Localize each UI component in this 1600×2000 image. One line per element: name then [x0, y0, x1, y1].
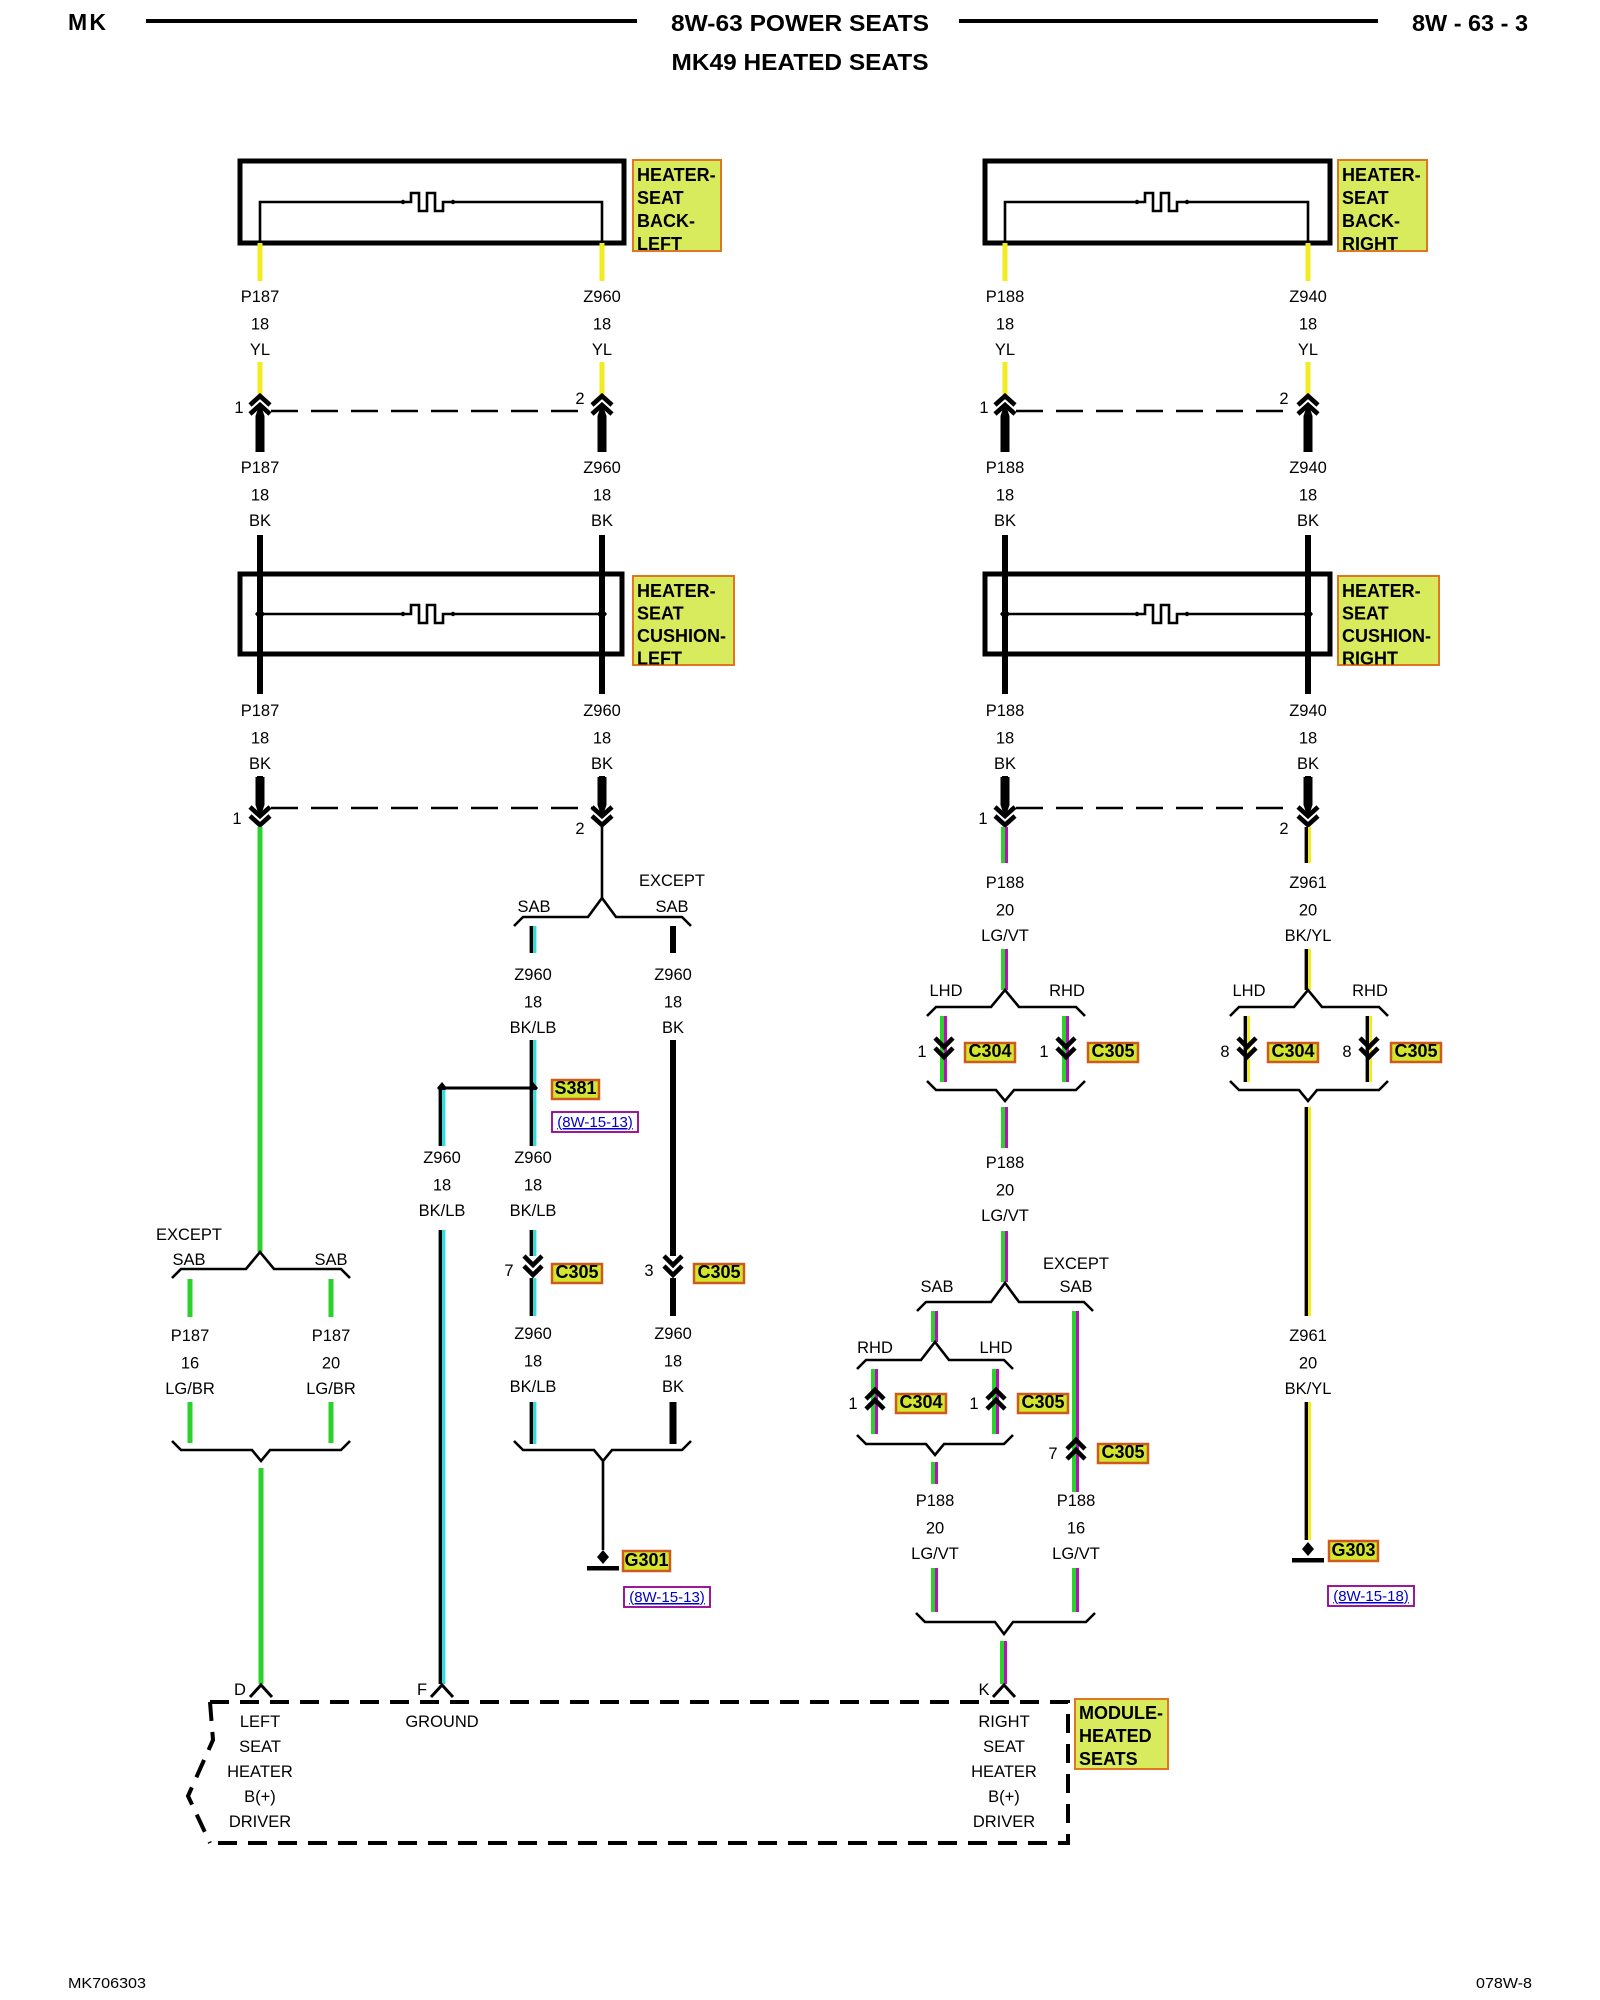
- label box HEATER-SEAT CUSHION-LEFT: [633, 576, 734, 669]
- svg-text:8: 8: [1220, 1043, 1229, 1061]
- wire Z961 BK/YL long to label: [1306, 1107, 1309, 1316]
- ground label G303: [1329, 1540, 1378, 1561]
- wire Z940 18 BK through cushion: [1305, 574, 1311, 694]
- dashed connector mating line back-right: [1016, 410, 1296, 413]
- wire P188 20 LG/VT upper segment: [1003, 827, 1007, 863]
- svg-text:SEAT: SEAT: [1342, 604, 1389, 624]
- svg-text:18: 18: [251, 316, 269, 334]
- wire Z960 BK into ground merge: [670, 1402, 677, 1444]
- heater element resistor back-right: [1005, 193, 1308, 243]
- svg-text:BK: BK: [994, 755, 1016, 773]
- value label Z961 20 BK/YL: [1285, 874, 1332, 945]
- svg-text:SAB: SAB: [172, 1251, 205, 1269]
- connector label C305 left: [552, 1262, 602, 1283]
- connector C305 pin 7 up chevrons: [1067, 1440, 1085, 1459]
- svg-text:SEAT: SEAT: [637, 188, 684, 208]
- svg-text:G303: G303: [1331, 1540, 1375, 1560]
- pin number 1 back-right connector: [979, 399, 988, 417]
- pin number 7 C305 up: [1048, 1445, 1057, 1463]
- svg-text:BK: BK: [662, 1378, 684, 1396]
- svg-text:SEAT: SEAT: [637, 604, 684, 624]
- svg-text:BK/LB: BK/LB: [419, 1202, 466, 1220]
- svg-text:C305: C305: [1101, 1442, 1144, 1462]
- value label Z940 18 YL: [1289, 288, 1327, 359]
- svg-text:C305: C305: [697, 1262, 740, 1282]
- merge bracket P187 branches: [172, 1441, 350, 1461]
- wire Z960 BK long segment to connector C305 pin 3: [670, 1040, 676, 1256]
- footer sheet number 078W-8: [1476, 1975, 1532, 1992]
- svg-text:Z940: Z940: [1289, 702, 1327, 720]
- wire P187 18 BK to connector: [257, 776, 263, 806]
- svg-text:SEAT: SEAT: [1342, 188, 1389, 208]
- heater seat back-right component box: [985, 161, 1330, 243]
- svg-text:2: 2: [575, 820, 584, 838]
- svg-text:18: 18: [593, 730, 611, 748]
- pin number 8 C304: [1220, 1043, 1229, 1061]
- header page number 8W - 63 - 3: [1412, 10, 1528, 36]
- svg-text:BK/LB: BK/LB: [510, 1378, 557, 1396]
- svg-text:18: 18: [593, 316, 611, 334]
- label box HEATER-SEAT BACK-LEFT: [633, 160, 721, 254]
- value label P188 18 BK: [986, 459, 1025, 530]
- wire Z960 BK below C305: [670, 1278, 676, 1316]
- value label P188 18 BK lower: [986, 702, 1025, 773]
- wire P188 18 BK through cushion: [1002, 574, 1008, 694]
- connector pin arrow up P188: [995, 396, 1015, 452]
- connector pin arrow down P187: [250, 777, 270, 825]
- svg-text:8W - 63 - 3: 8W - 63 - 3: [1412, 10, 1528, 36]
- wire Z960 BK/LB splice left branch: [440, 1090, 443, 1146]
- svg-text:1: 1: [917, 1043, 926, 1061]
- svg-text:RIGHT: RIGHT: [978, 1713, 1029, 1731]
- svg-text:20: 20: [996, 1182, 1014, 1200]
- svg-text:YL: YL: [995, 341, 1015, 359]
- module pin K chevron: [993, 1685, 1015, 1697]
- options split bracket SAB / EXCEPT SAB left: [514, 898, 691, 926]
- wire P188 18 YL lower segment: [1003, 362, 1008, 396]
- wire Z960 thin segment to options split: [601, 827, 604, 898]
- wire Z961 BK/YL RHD branch through C305 pin 8: [1367, 1016, 1370, 1082]
- connector label C305: [1088, 1041, 1138, 1062]
- wire Z960 BK/LB to splice S381: [531, 1040, 534, 1086]
- pin number 3: [644, 1262, 653, 1280]
- svg-text:BK: BK: [591, 755, 613, 773]
- wire Z960 BK/LB long ground-feed to module pin F: [440, 1230, 443, 1684]
- heater element resistor back-left: [260, 193, 602, 243]
- svg-text:RIGHT: RIGHT: [1342, 649, 1398, 669]
- svg-text:Z940: Z940: [1289, 288, 1327, 306]
- svg-text:GROUND: GROUND: [405, 1713, 478, 1731]
- svg-text:1: 1: [969, 1395, 978, 1413]
- connector pin arrow up P187: [250, 396, 270, 452]
- svg-text:P187: P187: [241, 702, 280, 720]
- value label P187 18 YL: [241, 288, 280, 359]
- svg-text:S381: S381: [554, 1078, 596, 1098]
- svg-text:C305: C305: [1091, 1041, 1134, 1061]
- connector label C305 right: [694, 1262, 744, 1283]
- svg-text:BK: BK: [249, 512, 271, 530]
- svg-text:K: K: [978, 1681, 989, 1699]
- value label Z960 18 BK/LB: [510, 966, 557, 1037]
- merge bracket to ground G301: [514, 1441, 691, 1461]
- svg-text:7: 7: [1048, 1445, 1057, 1463]
- svg-text:P188: P188: [986, 288, 1025, 306]
- svg-text:18: 18: [593, 487, 611, 505]
- svg-text:LG/VT: LG/VT: [1052, 1545, 1100, 1563]
- module pin D chevron: [250, 1685, 272, 1697]
- svg-text:HEATER-: HEATER-: [637, 581, 716, 601]
- svg-text:RIGHT: RIGHT: [1342, 234, 1398, 254]
- value label P188 18 YL: [986, 288, 1025, 359]
- splice label S381: [552, 1078, 599, 1099]
- header model code MK: [68, 9, 106, 35]
- svg-text:16: 16: [1067, 1520, 1085, 1538]
- module pin K label: [978, 1681, 989, 1699]
- svg-text:18: 18: [251, 730, 269, 748]
- svg-text:2: 2: [575, 390, 584, 408]
- pin number 2 cushion-left connector: [575, 820, 584, 838]
- svg-text:1: 1: [1039, 1043, 1048, 1061]
- svg-text:D: D: [234, 1681, 246, 1699]
- svg-text:18: 18: [524, 1177, 542, 1195]
- wire Z960 BK/LB mid to connector C305 pin 7: [531, 1230, 534, 1256]
- wire P187 20 LG/BR branch upper: [329, 1279, 334, 1317]
- svg-text:20: 20: [996, 902, 1014, 920]
- ground label G301: [623, 1550, 670, 1571]
- svg-text:MODULE-: MODULE-: [1079, 1703, 1163, 1723]
- svg-text:P187: P187: [312, 1327, 351, 1345]
- pin number 8 C305: [1342, 1043, 1351, 1061]
- svg-text:1: 1: [234, 399, 243, 417]
- connector C305 pin 1 up chevrons: [987, 1390, 1005, 1409]
- value label P188 20 LG/VT: [981, 874, 1029, 945]
- svg-text:BK/YL: BK/YL: [1285, 1380, 1332, 1398]
- svg-text:SEAT: SEAT: [239, 1738, 281, 1756]
- option label RHD right: [1352, 982, 1388, 1000]
- module-heated seats dashed component box: [188, 1702, 1068, 1843]
- wire Z940 18 BK upper segment: [1305, 535, 1311, 574]
- option label SAB: [517, 898, 550, 916]
- connector label C304 lower: [896, 1392, 946, 1413]
- wire P188 18 BK upper segment: [1002, 535, 1008, 574]
- svg-text:LHD: LHD: [1232, 982, 1265, 1000]
- wire P187 20 LG/BR branch lower: [329, 1402, 334, 1443]
- svg-text:2: 2: [1279, 390, 1288, 408]
- dashed connector mating line back-left: [271, 410, 590, 413]
- svg-text:SAB: SAB: [314, 1251, 347, 1269]
- svg-text:BACK-: BACK-: [637, 211, 695, 231]
- pin number 1 back-left connector: [234, 399, 243, 417]
- svg-text:18: 18: [1299, 487, 1317, 505]
- value label Z960 18 YL: [583, 288, 621, 359]
- svg-text:LHD: LHD: [979, 1339, 1012, 1357]
- connector label C305 pin7: [1098, 1442, 1148, 1463]
- label box HEATER-SEAT CUSHION-RIGHT: [1338, 576, 1439, 669]
- svg-text:3: 3: [644, 1262, 653, 1280]
- svg-text:1: 1: [978, 810, 987, 828]
- svg-text:LG/BR: LG/BR: [306, 1380, 356, 1398]
- svg-text:18: 18: [664, 1353, 682, 1371]
- svg-text:(8W-15-18): (8W-15-18): [1333, 1588, 1409, 1605]
- wire P188 18 BK to connector: [1002, 776, 1008, 806]
- wire Z940 18 BK to connector: [1305, 776, 1311, 806]
- connector pin arrow down Z940: [1298, 777, 1318, 825]
- pin number 1 C305: [1039, 1043, 1048, 1061]
- ground symbol G301: [587, 1550, 619, 1571]
- connector C304 pin 8 chevrons: [1238, 1038, 1256, 1057]
- options split bracket EXCEPT SAB / SAB for P187: [172, 1252, 350, 1278]
- svg-text:20: 20: [926, 1520, 944, 1538]
- final merge bracket P188 to module pin K: [916, 1613, 1095, 1634]
- pin number 1 C305 up: [969, 1395, 978, 1413]
- svg-text:EXCEPT: EXCEPT: [1043, 1255, 1109, 1273]
- svg-text:LG/BR: LG/BR: [165, 1380, 215, 1398]
- connector pin arrow up Z960: [592, 396, 612, 452]
- svg-text:1: 1: [848, 1395, 857, 1413]
- svg-text:BK: BK: [1297, 755, 1319, 773]
- svg-text:BK: BK: [1297, 512, 1319, 530]
- heater seat back-left component box: [240, 161, 624, 243]
- svg-text:Z960: Z960: [514, 966, 552, 984]
- svg-text:Z960: Z960: [423, 1149, 461, 1167]
- value label Z960 18 BK: [583, 459, 621, 530]
- svg-text:G301: G301: [624, 1550, 668, 1570]
- svg-text:Z940: Z940: [1289, 459, 1327, 477]
- svg-text:LG/VT: LG/VT: [981, 1207, 1029, 1225]
- svg-text:YL: YL: [1298, 341, 1318, 359]
- connector label C304: [965, 1041, 1015, 1062]
- dashed connector mating line cushion-left: [271, 807, 592, 810]
- svg-text:P188: P188: [916, 1492, 955, 1510]
- wire P187 16 LG/BR branch lower: [188, 1402, 193, 1443]
- svg-text:HEATER-: HEATER-: [637, 165, 716, 185]
- footer document number MK706303: [68, 1975, 146, 1992]
- svg-text:18: 18: [524, 994, 542, 1012]
- value label Z940 18 BK lower: [1289, 702, 1327, 773]
- heater element resistor cushion-left with junction nodes: [255, 605, 607, 623]
- wire P187 LG green long segment: [258, 827, 263, 1252]
- value label Z961 20 BK/YL mid: [1285, 1327, 1332, 1398]
- value label Z960 18 BK: [654, 966, 692, 1037]
- wire P188 LG/VT to module pin K: [1002, 1641, 1006, 1684]
- wire Z960 18 BK branch segment: [670, 926, 676, 953]
- svg-text:Z960: Z960: [583, 702, 621, 720]
- wire Z960 18 BK to connector: [599, 776, 605, 806]
- pin number 7: [504, 1262, 513, 1280]
- header subtitle MK49 HEATED SEATS: [672, 49, 929, 75]
- svg-text:16: 16: [181, 1355, 199, 1373]
- svg-text:SAB: SAB: [517, 898, 550, 916]
- value label Z960 18 BK lower: [583, 702, 621, 773]
- option label LHD: [929, 982, 962, 1000]
- svg-text:BK/YL: BK/YL: [1285, 927, 1332, 945]
- svg-text:P187: P187: [241, 459, 280, 477]
- pin number 1 cushion-left connector: [232, 810, 241, 828]
- label box HEATER-SEAT BACK-RIGHT: [1338, 160, 1427, 254]
- header title 8W-63 POWER SEATS: [671, 10, 929, 36]
- wire P187 18 YL lower segment: [258, 362, 263, 396]
- splice S381 horizontal link with junction nodes: [437, 1082, 538, 1094]
- svg-text:18: 18: [251, 487, 269, 505]
- svg-text:BACK-: BACK-: [1342, 211, 1400, 231]
- wire P187 18 BK upper segment: [257, 535, 263, 574]
- svg-text:C305: C305: [1394, 1041, 1437, 1061]
- option label EXCEPT SAB left: [156, 1226, 222, 1269]
- svg-text:078W-8: 078W-8: [1476, 1975, 1532, 1992]
- svg-text:C304: C304: [1271, 1041, 1314, 1061]
- svg-text:HEATER: HEATER: [971, 1763, 1037, 1781]
- svg-text:Z960: Z960: [583, 459, 621, 477]
- wire P188 LG/VT below merge: [1003, 1107, 1007, 1148]
- options split bracket LHD/RHD for Z961: [1230, 990, 1388, 1016]
- svg-text:BK/LB: BK/LB: [510, 1202, 557, 1220]
- value label P187 20 LG/BR: [306, 1327, 356, 1398]
- svg-text:BK: BK: [662, 1019, 684, 1037]
- pin number 1 C304: [917, 1043, 926, 1061]
- svg-text:(8W-15-13): (8W-15-13): [629, 1589, 705, 1606]
- wire P188 18 YL upper segment: [1003, 243, 1008, 281]
- svg-text:BK: BK: [994, 512, 1016, 530]
- svg-text:YL: YL: [592, 341, 612, 359]
- option label EXCEPT SAB right half: [1043, 1255, 1109, 1296]
- svg-text:18: 18: [996, 487, 1014, 505]
- svg-text:18: 18: [433, 1177, 451, 1195]
- svg-text:HEATER-: HEATER-: [1342, 165, 1421, 185]
- wire P188 LG/VT LHD branch through C305 pin 1 up: [994, 1369, 998, 1434]
- connector label C305 right2: [1391, 1041, 1441, 1062]
- options split bracket SAB / EXCEPT SAB right: [917, 1283, 1093, 1311]
- wire P188 20 LG/VT below inner merge: [933, 1462, 937, 1484]
- svg-text:Z960: Z960: [514, 1325, 552, 1343]
- wire P188 16 LG/VT into final merge: [1074, 1568, 1078, 1612]
- module pin F chevron: [431, 1685, 453, 1697]
- svg-text:P187: P187: [241, 288, 280, 306]
- connector label C304 right: [1268, 1041, 1318, 1062]
- dashed connector mating line cushion-right: [1016, 807, 1296, 810]
- heater seat cushion-left component box: [240, 574, 622, 654]
- connector C305 pin 7 chevrons: [524, 1256, 542, 1275]
- merge bracket RHD/LHD inner: [857, 1435, 1013, 1455]
- module pin F label: [417, 1681, 427, 1699]
- svg-text:18: 18: [996, 316, 1014, 334]
- label box MODULE-HEATED SEATS: [1075, 1699, 1168, 1769]
- svg-text:B(+): B(+): [244, 1788, 276, 1806]
- reference link 8W-15-18 for G303: [1328, 1586, 1414, 1606]
- wire P188 LG/VT SAB branch: [933, 1311, 937, 1342]
- options split bracket LHD/RHD for P188: [927, 990, 1085, 1016]
- value label P187 18 BK: [241, 459, 280, 530]
- merge bracket P188 LHD/RHD branches: [927, 1081, 1085, 1101]
- wire Z960 18 BK upper segment: [599, 535, 605, 574]
- value label Z940 18 BK: [1289, 459, 1327, 530]
- wire Z960 BK/LB below C305: [531, 1278, 534, 1316]
- wire Z960 to ground G301: [602, 1461, 605, 1550]
- svg-text:8W-63 POWER SEATS: 8W-63 POWER SEATS: [671, 10, 929, 36]
- value label P188 20 LG/VT mid: [981, 1154, 1029, 1225]
- wire P188 LG/VT RHD branch through C304 pin 1 up: [873, 1369, 877, 1434]
- wire Z961 BK/YL to LHD/RHD split: [1306, 949, 1309, 990]
- wire Z940 18 YL lower segment: [1306, 362, 1311, 396]
- svg-text:EXCEPT: EXCEPT: [156, 1226, 222, 1244]
- connector C305 pin 8 chevrons: [1360, 1038, 1378, 1057]
- svg-text:P188: P188: [986, 459, 1025, 477]
- svg-text:C304: C304: [968, 1041, 1011, 1061]
- svg-text:SAB: SAB: [920, 1278, 953, 1296]
- svg-text:8: 8: [1342, 1043, 1351, 1061]
- connector pin arrow down Z960: [592, 777, 612, 825]
- svg-text:LEFT: LEFT: [637, 649, 682, 669]
- svg-text:18: 18: [664, 994, 682, 1012]
- wire P188 LG/VT to LHD/RHD split: [1003, 949, 1007, 990]
- svg-text:CUSHION-: CUSHION-: [637, 626, 726, 646]
- header rule left: [146, 19, 637, 23]
- svg-text:LG/VT: LG/VT: [981, 927, 1029, 945]
- wire P188 LG/VT LHD branch through C304 pin 1: [942, 1016, 946, 1082]
- svg-text:Z960: Z960: [654, 1325, 692, 1343]
- reference link 8W-15-13 for S381: [552, 1112, 638, 1132]
- svg-text:HEATED: HEATED: [1079, 1726, 1152, 1746]
- svg-text:SEATS: SEATS: [1079, 1749, 1138, 1769]
- wire Z961 BK/YL to ground G303: [1306, 1402, 1309, 1540]
- svg-text:SAB: SAB: [655, 898, 688, 916]
- svg-text:DRIVER: DRIVER: [973, 1813, 1035, 1831]
- wire P188 LG/VT RHD branch through C305 pin 1: [1064, 1016, 1068, 1082]
- wire Z960 18 YL upper segment: [600, 243, 605, 281]
- svg-text:18: 18: [524, 1353, 542, 1371]
- wire Z960 18 BK/LB SAB branch segment: [531, 926, 534, 953]
- pin number 1 cushion-right connector: [978, 810, 987, 828]
- svg-text:BK: BK: [591, 512, 613, 530]
- svg-text:2: 2: [1279, 820, 1288, 838]
- svg-text:CUSHION-: CUSHION-: [1342, 626, 1431, 646]
- svg-text:20: 20: [322, 1355, 340, 1373]
- value label Z960 18 BK bottom: [654, 1325, 692, 1396]
- svg-text:LHD: LHD: [929, 982, 962, 1000]
- options split bracket RHD/LHD inner: [857, 1342, 1013, 1369]
- wire Z960 BK/LB into ground merge: [531, 1402, 534, 1444]
- reference link 8W-15-13 for G301: [624, 1587, 710, 1607]
- svg-text:20: 20: [1299, 1355, 1317, 1373]
- connector pin arrow up Z940: [1298, 396, 1318, 452]
- heater seat cushion-right component box: [985, 574, 1330, 654]
- header rule right: [959, 19, 1378, 23]
- svg-text:7: 7: [504, 1262, 513, 1280]
- option label SAB right: [314, 1251, 347, 1269]
- option label EXCEPT SAB: [639, 872, 705, 916]
- svg-text:P188: P188: [986, 874, 1025, 892]
- value label Z960 18 BK/LB bottom: [510, 1325, 557, 1396]
- connector C305 pin 3 chevrons: [664, 1256, 682, 1275]
- svg-text:RHD: RHD: [857, 1339, 893, 1357]
- module pin function text GROUND: [405, 1713, 478, 1731]
- value label Z960 18 BK/LB mid branch: [510, 1149, 557, 1220]
- wire P187 16 LG/BR branch upper: [188, 1279, 193, 1317]
- option label SAB right half: [920, 1278, 953, 1296]
- svg-text:Z961: Z961: [1289, 1327, 1327, 1345]
- svg-text:F: F: [417, 1681, 427, 1699]
- svg-text:1: 1: [232, 810, 241, 828]
- pin number 2 cushion-right connector: [1279, 820, 1288, 838]
- svg-text:P188: P188: [986, 1154, 1025, 1172]
- svg-text:P188: P188: [1057, 1492, 1096, 1510]
- wire Z961 20 BK/YL upper segment: [1306, 827, 1309, 863]
- svg-text:B(+): B(+): [988, 1788, 1020, 1806]
- svg-text:RHD: RHD: [1049, 982, 1085, 1000]
- wire Z960 18 BK through cushion: [599, 574, 605, 694]
- svg-text:C304: C304: [899, 1392, 942, 1412]
- pin number 1 C304 up: [848, 1395, 857, 1413]
- value label P187 18 BK lower: [241, 702, 280, 773]
